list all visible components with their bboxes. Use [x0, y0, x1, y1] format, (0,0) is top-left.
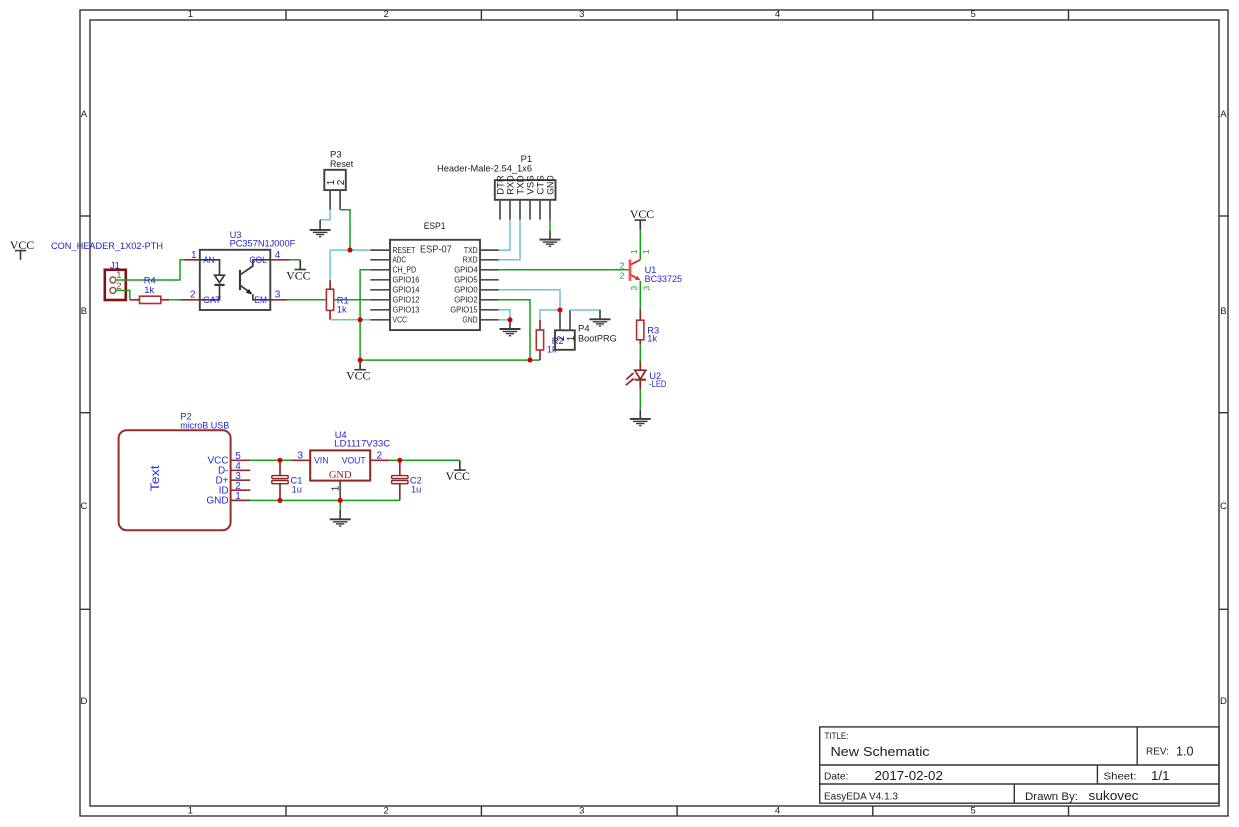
svg-text:Reset: Reset — [330, 159, 354, 170]
svg-text:A: A — [1220, 109, 1227, 120]
svg-text:2: 2 — [383, 9, 388, 20]
header P4 body — [555, 330, 575, 350]
capacitor C1 — [272, 460, 288, 500]
svg-text:New Schematic: New Schematic — [831, 744, 930, 759]
svg-text:GPIO4: GPIO4 — [454, 265, 478, 275]
U4 labels — [334, 430, 390, 448]
optocoupler U3 body — [200, 250, 270, 310]
U3 pin AN (1) — [184, 259, 200, 261]
wire GND net (P2 GND to C2 bottom) — [250, 499, 400, 501]
ground at U4 — [330, 510, 351, 526]
ground at U2 — [630, 410, 651, 426]
wire R4 to U3 CAT — [169, 299, 180, 301]
svg-text:VCC: VCC — [10, 238, 34, 252]
wire RESET net (cyan) — [330, 249, 370, 251]
svg-text:Date:: Date: — [824, 772, 848, 783]
R4 labels — [144, 276, 156, 296]
svg-text:1u: 1u — [411, 485, 421, 495]
wire U2 cathode to ground — [639, 389, 641, 410]
wire ESP1 GPIO4 to U1 base — [499, 269, 630, 271]
svg-text:GND: GND — [545, 175, 555, 195]
junction at ESP1 GND node — [507, 317, 512, 322]
ground at P3 pin1 — [310, 220, 331, 237]
svg-text:Drawn By:: Drawn By: — [1025, 791, 1078, 803]
svg-text:VIN: VIN — [314, 455, 329, 466]
svg-text:B: B — [81, 306, 87, 317]
U3 pin CAT (2) — [180, 299, 200, 301]
svg-text:2: 2 — [383, 806, 388, 817]
svg-text:GPIO5: GPIO5 — [454, 275, 478, 285]
svg-text:D: D — [80, 696, 87, 707]
R2 labels — [547, 336, 564, 355]
C1 labels — [291, 476, 303, 495]
svg-text:Text: Text — [148, 465, 162, 492]
P1 pin names (rotated) — [495, 175, 555, 195]
svg-text:ADC: ADC — [393, 255, 407, 265]
svg-text:RXD: RXD — [463, 255, 478, 265]
svg-text:3: 3 — [579, 9, 584, 20]
wire P1 GND to ground — [549, 220, 551, 231]
svg-text:VCC: VCC — [346, 368, 370, 382]
svg-text:2: 2 — [336, 179, 347, 185]
svg-text:VCC: VCC — [286, 268, 310, 282]
svg-text:BootPRG: BootPRG — [578, 333, 617, 344]
svg-text:Sheet:: Sheet: — [1104, 772, 1137, 783]
wire U4 GND to ground — [339, 500, 341, 510]
svg-text:J1: J1 — [110, 260, 120, 270]
svg-text:2: 2 — [620, 271, 625, 281]
svg-text:1k: 1k — [647, 334, 657, 344]
svg-text:LD1117V33C: LD1117V33C — [334, 439, 390, 449]
svg-text:3: 3 — [579, 806, 584, 817]
power flag VCC at U3 COL (inverted) — [286, 260, 310, 283]
U4 VIN pin line (3) — [291, 459, 310, 461]
P3 pin numbers (rotated) — [326, 179, 347, 185]
svg-text:GPIO12: GPIO12 — [393, 295, 420, 305]
junction at bottom VCC node — [358, 358, 363, 363]
U1 labels — [645, 265, 682, 284]
wire CH_PD to VCC node (green vertical) — [360, 270, 370, 360]
P2 labels — [180, 411, 229, 430]
svg-text:A: A — [81, 109, 88, 120]
wire ESP1 RXD to P1 TXD — [499, 220, 520, 260]
wire P4 pin2 to ground — [570, 310, 600, 312]
wire VCC to U1 collector — [639, 230, 641, 260]
wire J1 pin2 to R4 — [116, 290, 130, 299]
U3 pin names — [203, 255, 267, 305]
svg-text:C: C — [80, 501, 87, 512]
junction at U4 GND node — [338, 498, 343, 503]
svg-text:C: C — [1220, 501, 1227, 512]
U4 VOUT pin line (2) — [370, 459, 390, 461]
wire bottom node to R2 (green horizontal) — [360, 359, 540, 361]
wire ESP1 GND to GND node — [499, 319, 510, 321]
power flag VCC below ESP1 — [346, 360, 370, 382]
svg-text:4: 4 — [775, 806, 780, 817]
svg-text:1/1: 1/1 — [1151, 768, 1170, 783]
svg-text:CTS: CTS — [535, 175, 545, 195]
power flag VCC (floating, far left) — [10, 238, 34, 260]
svg-text:4: 4 — [275, 250, 281, 261]
junction at P3/RESET node — [347, 248, 352, 253]
svg-text:3: 3 — [298, 450, 304, 461]
ground at P1 GND — [540, 231, 561, 246]
wire ESP1 GPIO0 to P4/R2 node — [499, 290, 560, 310]
wire U4 VOUT to VCC flag — [390, 459, 460, 461]
svg-text:2: 2 — [620, 260, 625, 270]
svg-text:PC357N1J000F: PC357N1J000F — [230, 239, 296, 249]
power flag VCC at U1 collector — [630, 207, 654, 230]
power flag VCC at U4 VOUT (inverted) — [446, 460, 470, 483]
P3 pin 2 line — [339, 190, 341, 210]
junction at GPIO2 bottom node — [527, 358, 532, 363]
svg-text:TXD: TXD — [515, 175, 525, 195]
svg-text:1u: 1u — [292, 485, 302, 495]
resistor R1 — [326, 280, 333, 320]
svg-text:2: 2 — [190, 290, 196, 301]
wire ESP1 TXD to P1 RXD — [499, 220, 510, 251]
U2 labels — [649, 371, 666, 389]
svg-text:Header-Male-2.54_1x6: Header-Male-2.54_1x6 — [437, 163, 532, 174]
svg-text:BC33725: BC33725 — [645, 274, 682, 284]
resistor R4 — [130, 296, 169, 303]
svg-text:GPIO13: GPIO13 — [393, 305, 420, 315]
junction at C1 top — [277, 458, 282, 463]
U3 pin EM (3) — [270, 299, 287, 301]
wire node to R2 top — [540, 310, 560, 320]
ESP1 right pin lines — [480, 250, 499, 320]
ESP1 left pin lines — [370, 250, 390, 320]
wire ESP1 GPIO15 to GND node — [499, 310, 510, 320]
svg-text:GPIO16: GPIO16 — [393, 275, 420, 285]
svg-text:GPIO14: GPIO14 — [393, 285, 420, 295]
regulator U4 body — [310, 450, 370, 480]
junction at C1 bottom — [277, 498, 282, 503]
svg-text:1.0: 1.0 — [1176, 744, 1194, 759]
junction at ESP1 VCC pin node — [358, 317, 363, 322]
wire U3 EM to ESP1 GPIO12 — [287, 299, 370, 301]
LED U2 — [626, 361, 646, 389]
P1 pin lines — [500, 200, 550, 220]
junction at C2 top — [397, 458, 402, 463]
P2 pin numbers — [235, 451, 241, 502]
svg-text:GPIO0: GPIO0 — [454, 285, 478, 295]
svg-text:COL: COL — [249, 255, 267, 265]
capacitor C2 — [392, 460, 408, 500]
P4 pin lines — [560, 310, 570, 330]
P2 pin names — [206, 456, 228, 507]
connector P3 body — [324, 170, 346, 190]
wire J1 pin1 to U3 AN — [116, 260, 184, 280]
svg-text:D: D — [1220, 696, 1227, 707]
ESP1 left pin names — [393, 245, 420, 325]
svg-text:4: 4 — [775, 9, 780, 20]
svg-text:1: 1 — [629, 249, 639, 254]
U4 GND pin line (1) — [339, 481, 341, 501]
U3 internal phototransistor — [240, 260, 270, 300]
wire P3 pin2 to RESET net — [340, 210, 350, 250]
U4 pin numbers — [298, 450, 383, 461]
P2 pin lines — [231, 460, 251, 500]
R3 labels — [647, 326, 659, 344]
transistor U1 (BC33725) — [630, 259, 640, 281]
svg-text:VSS: VSS — [525, 175, 535, 195]
svg-text:B: B — [1220, 306, 1226, 317]
svg-text:CON_HEADER_1X02-PTH: CON_HEADER_1X02-PTH — [51, 241, 163, 252]
svg-text:RESET: RESET — [393, 245, 416, 255]
svg-text:EasyEDA V4.1.3: EasyEDA V4.1.3 — [824, 791, 898, 802]
U1 pin numbers/names (green) — [620, 249, 652, 290]
svg-text:1k: 1k — [144, 285, 154, 295]
wire P2 VCC to U4 VIN — [250, 459, 291, 461]
svg-text:GPIO2: GPIO2 — [454, 295, 478, 305]
svg-text:GND: GND — [206, 496, 228, 507]
svg-text:VCC: VCC — [630, 207, 654, 221]
svg-text:3: 3 — [642, 286, 652, 291]
C2 labels — [410, 476, 422, 495]
header P1 body — [495, 180, 556, 200]
wire R3 to U2 LED — [639, 344, 641, 361]
svg-text:R4: R4 — [144, 276, 156, 286]
J1 pin numbers — [116, 270, 121, 292]
svg-text:sukovec: sukovec — [1089, 788, 1140, 803]
U3 internal photodiode — [200, 260, 225, 300]
U3 pin numbers — [190, 250, 281, 301]
svg-text:ESP1: ESP1 — [424, 221, 446, 232]
svg-text:3: 3 — [629, 286, 639, 291]
svg-text:2017-02-02: 2017-02-02 — [875, 768, 943, 783]
svg-text:1: 1 — [330, 485, 341, 491]
resistor R2 — [536, 320, 543, 360]
wire R1 top to RESET — [329, 250, 331, 280]
wire U3 COL to VCC flag — [289, 259, 300, 261]
svg-text:5: 5 — [971, 806, 976, 817]
svg-text:1: 1 — [191, 250, 197, 261]
wire U1 emitter to R3 — [639, 281, 641, 310]
svg-text:3: 3 — [275, 290, 281, 301]
ground at P4 — [590, 310, 611, 326]
svg-text:VCC: VCC — [446, 469, 470, 483]
U4 pin names — [314, 455, 366, 466]
svg-text:-LED: -LED — [649, 379, 666, 389]
svg-text:CH_PD: CH_PD — [393, 265, 417, 275]
wire P3 pin1 to ground — [320, 210, 330, 220]
connector P2 (microB USB) body — [119, 430, 231, 530]
svg-text:AN: AN — [203, 255, 214, 265]
ground at ESP1 GND — [500, 320, 521, 336]
svg-text:ESP-07: ESP-07 — [420, 245, 452, 256]
svg-text:2: 2 — [377, 450, 383, 461]
svg-text:1: 1 — [188, 9, 193, 20]
svg-text:1k: 1k — [337, 305, 347, 315]
svg-text:GPIO15: GPIO15 — [450, 305, 478, 315]
svg-text:EM: EM — [254, 295, 267, 305]
connector J1 — [105, 270, 126, 300]
svg-text:microB USB: microB USB — [180, 420, 229, 430]
svg-text:1: 1 — [641, 249, 651, 254]
svg-text:VOUT: VOUT — [342, 455, 366, 466]
svg-text:RXD: RXD — [505, 175, 515, 195]
svg-text:GND: GND — [462, 315, 477, 325]
resistor R3 — [637, 310, 644, 345]
P3 pin 1 line — [329, 190, 331, 210]
wire R1 bottom to ESP1 VCC pin — [330, 319, 370, 321]
R1 labels — [337, 295, 349, 314]
U3 pin COL (4) — [270, 259, 289, 261]
svg-text:TITLE:: TITLE: — [825, 731, 849, 741]
svg-text:5: 5 — [971, 9, 976, 20]
U3 reference and part labels — [230, 230, 296, 249]
wire ESP1 GPIO2 down to bottom node — [499, 300, 530, 360]
svg-text:CAT: CAT — [203, 295, 221, 305]
svg-text:DTR: DTR — [495, 175, 505, 195]
junction at GPIO0/P4/R2 node — [557, 307, 562, 312]
svg-text:REV:: REV: — [1146, 747, 1169, 758]
svg-text:1: 1 — [188, 806, 193, 817]
svg-text:TXD: TXD — [464, 245, 478, 255]
svg-text:VCC: VCC — [393, 315, 408, 325]
svg-text:GND: GND — [329, 470, 352, 481]
P4 pin numbers (rotated) — [556, 335, 577, 341]
ESP1 right pin names — [450, 245, 478, 325]
svg-text:1: 1 — [566, 335, 577, 341]
IC ESP1 body — [390, 240, 480, 330]
